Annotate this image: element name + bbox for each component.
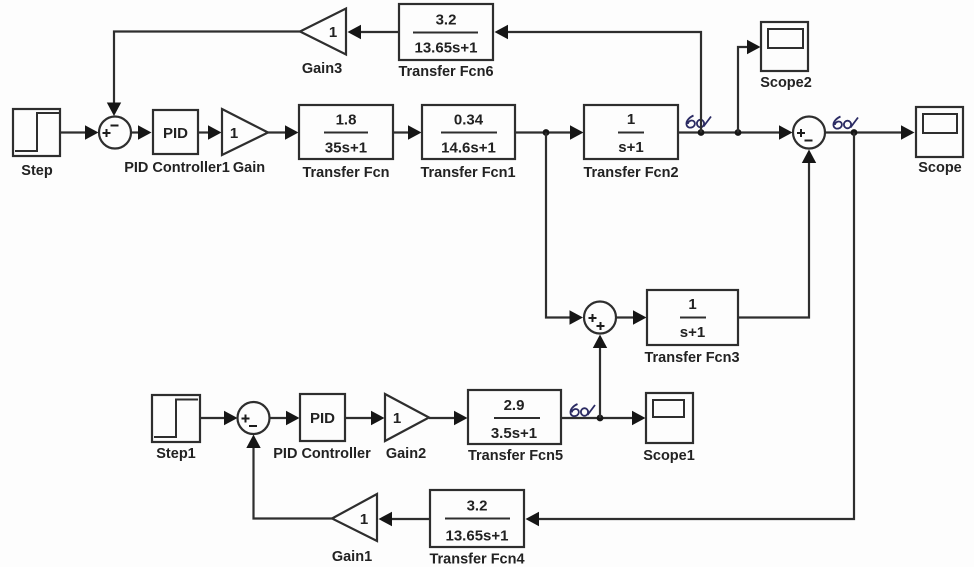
wire PID Controller to Gain2 with arrowhead [345, 411, 385, 425]
svg-text:13.65s+1: 13.65s+1 [446, 528, 509, 545]
block PID Controller [300, 394, 345, 441]
svg-text:Transfer Fcn4: Transfer Fcn4 [429, 552, 524, 567]
svg-text:Transfer Fcn2: Transfer Fcn2 [583, 165, 678, 181]
wire Transfer Fcn4 to Gain1 with arrowhead [379, 512, 431, 526]
junction node at x=854 (bottom feedback takeoff) [851, 129, 858, 136]
block Transfer Fcn6 (3.2 / 13.65s+1) [399, 4, 493, 60]
svg-text:0.34: 0.34 [454, 112, 484, 129]
wire node x=738 up to Scope2 with arrowhead [738, 40, 761, 133]
block Transfer Fcn3 (1 / s+1) [647, 290, 738, 345]
wire Transfer Fcn6 to Gain3 with arrowhead [348, 25, 400, 39]
svg-text:Transfer Fcn5: Transfer Fcn5 [468, 448, 563, 464]
gain Gain1 (triangle pointing left, value 1) [332, 494, 377, 541]
svg-text:1: 1 [360, 511, 368, 528]
svg-text:Transfer Fcn3: Transfer Fcn3 [644, 350, 739, 366]
svg-text:Scope: Scope [918, 160, 962, 176]
svg-text:Gain1: Gain1 [332, 549, 372, 565]
svg-text:Step: Step [21, 163, 53, 179]
junction node at x=600 on bottom line [597, 415, 604, 422]
svg-text:3.5s+1: 3.5s+1 [491, 425, 537, 442]
svg-text:1: 1 [329, 24, 337, 41]
svg-text:Transfer Fcn: Transfer Fcn [302, 165, 389, 181]
wire Gain3 to Sum1 north with arrowhead [107, 32, 300, 117]
svg-text:14.6s+1: 14.6s+1 [441, 140, 496, 157]
block Transfer Fcn1 (0.34 / 14.6s+1) [422, 105, 515, 159]
step source Step [13, 109, 60, 156]
svg-text:1: 1 [688, 296, 696, 313]
svg-text:s+1: s+1 [680, 324, 705, 341]
svg-text:Step1: Step1 [156, 446, 196, 462]
sum junction Sum1 (+ west, - north) [99, 117, 131, 149]
svg-text:Gain3: Gain3 [302, 61, 342, 77]
svg-text:PID Controller: PID Controller [273, 446, 371, 462]
wire Transfer Fcn2 to Sum2 with arrowhead [678, 125, 793, 139]
svg-text:Gain2: Gain2 [386, 446, 426, 462]
gain Gain (triangle, value 1) [222, 109, 268, 155]
junction node on main line at x=546 [543, 129, 550, 136]
wire Gain to Transfer Fcn with arrowhead [268, 125, 299, 139]
sum junction Sum2mid (+ west, + south) [584, 302, 616, 334]
scope Scope1 [646, 393, 693, 443]
scope Scope2 [761, 22, 808, 71]
svg-text:Transfer Fcn1: Transfer Fcn1 [420, 165, 515, 181]
svg-text:13.65s+1: 13.65s+1 [415, 40, 478, 57]
junction node at x=701 (feedback takeoff) [698, 129, 705, 136]
signal annotation 6o' (navy) after Transfer Fcn2 [686, 116, 711, 406]
svg-text:3.2: 3.2 [436, 12, 457, 29]
wire Sum1 to PID Controller1 with arrowhead [131, 125, 152, 139]
wire branch from node x=600 up to Sum2mid south with arrowhead [593, 335, 607, 419]
gain Gain2 (triangle, value 1) [385, 394, 429, 441]
svg-text:1: 1 [393, 410, 401, 427]
wire Transfer Fcn1 to Transfer Fcn2 with arrowhead [515, 125, 584, 139]
block Transfer Fcn2 (1 / s+1) [584, 105, 678, 159]
wire Transfer Fcn to Transfer Fcn1 with arrowhead [393, 125, 422, 139]
svg-text:1: 1 [627, 111, 635, 128]
svg-text:1.8: 1.8 [336, 112, 357, 129]
gain Gain3 (triangle pointing left, value 1) [300, 9, 346, 55]
svg-text:Transfer Fcn6: Transfer Fcn6 [398, 64, 493, 80]
svg-text:s+1: s+1 [618, 139, 643, 156]
wire Transfer Fcn5 to Scope1 with arrowhead [561, 411, 646, 425]
wire feedback up from node x=701 to Transfer Fcn6 with arrowhead [495, 25, 702, 133]
scope Scope [916, 107, 963, 157]
svg-text:3.2: 3.2 [467, 498, 488, 515]
wire branch from node x=546 down to Sum2mid with arrowhead [546, 133, 583, 325]
wire Sum2 to Scope with arrowhead [825, 125, 915, 139]
sum junction Sum2 (+ west, - south) [793, 117, 825, 149]
junction node at x=738 (Scope2 takeoff) [735, 129, 742, 136]
svg-text:2.9: 2.9 [504, 397, 525, 414]
signal annotation 6o' (navy) after Sum2 [833, 117, 858, 129]
block Transfer Fcn4 (3.2 / 13.65s+1) [430, 490, 524, 547]
signal annotation 6o' (navy) after Transfer Fcn5 [570, 404, 595, 416]
svg-text:Scope2: Scope2 [760, 75, 812, 91]
wire Sum2mid to Transfer Fcn3 with arrowhead [616, 310, 647, 324]
step source Step1 [152, 395, 200, 442]
wire Gain2 to Transfer Fcn5 with arrowhead [429, 411, 468, 425]
wire Transfer Fcn3 to Sum2 south with arrowhead [738, 150, 816, 318]
svg-text:PID: PID [310, 410, 335, 427]
block Transfer Fcn5 (2.9 / 3.5s+1) [468, 390, 561, 444]
svg-text:Gain: Gain [233, 160, 265, 176]
svg-text:35s+1: 35s+1 [325, 140, 367, 157]
svg-text:1: 1 [230, 125, 238, 142]
wire Step1 to Sum3 with arrowhead [200, 411, 238, 425]
block Transfer Fcn (1.8 / 35s+1) [299, 105, 393, 159]
svg-text:Scope1: Scope1 [643, 448, 695, 464]
sum junction Sum3 (+ west, - south) [238, 402, 270, 434]
wire bottom feedback from node x=854 down to Transfer Fcn4 with arrowhead [526, 133, 855, 527]
wire Step to Sum1 with arrowhead [60, 125, 99, 139]
wire PID Controller1 to Gain with arrowhead [198, 125, 222, 139]
svg-text:PID: PID [163, 125, 188, 142]
block PID Controller1 [153, 110, 198, 154]
svg-text:PID Controller1: PID Controller1 [124, 160, 230, 176]
wire Gain1 to Sum3 south with arrowhead [246, 435, 332, 519]
wire Sum3 to PID Controller with arrowhead [270, 411, 300, 425]
